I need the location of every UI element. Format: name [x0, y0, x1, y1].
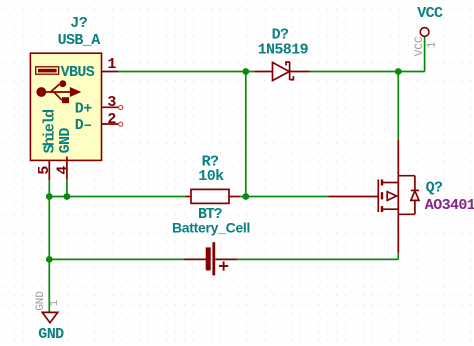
pin 1 VBUS	[61, 56, 119, 81]
transistor Q? AO3401	[328, 140, 419, 253]
label 1N5819	[258, 42, 309, 59]
svg-text:1: 1	[107, 56, 116, 73]
svg-text:10k: 10k	[198, 168, 224, 185]
wire to resistor	[49, 196, 185, 198]
svg-text:VCC: VCC	[417, 5, 443, 22]
pin 2 D-	[75, 111, 123, 134]
svg-text:VBUS: VBUS	[61, 64, 95, 81]
svg-text:Shield: Shield	[41, 110, 58, 154]
wire R branch vertical	[245, 72, 247, 197]
svg-text:Battery_Cell: Battery_Cell	[172, 219, 250, 235]
label Battery_Cell	[172, 219, 250, 235]
svg-text:USB_A: USB_A	[58, 32, 101, 49]
label R?	[202, 154, 219, 171]
label 10k	[198, 168, 224, 185]
pin 5 Shield	[36, 110, 58, 180]
junction pin4 wire	[64, 193, 71, 200]
svg-text:4: 4	[54, 166, 71, 175]
svg-text:D–: D–	[75, 117, 92, 134]
resistor R? 10k	[185, 189, 240, 203]
label AO3401	[425, 197, 474, 214]
svg-text:1: 1	[49, 299, 61, 306]
wire pin1 to diode	[119, 71, 255, 73]
junction at top of R branch	[242, 68, 249, 75]
svg-text:GND: GND	[57, 128, 74, 154]
svg-text:1: 1	[427, 41, 439, 48]
diode D? 1N5819	[255, 62, 310, 81]
battery BT?	[183, 242, 237, 275]
svg-text:1N5819: 1N5819	[258, 42, 309, 59]
value label USB_A	[58, 32, 101, 49]
svg-text:GND: GND	[38, 326, 64, 343]
pin 3 D+	[75, 94, 123, 118]
reference label J?	[70, 15, 87, 32]
VBUS bar icon	[36, 67, 59, 74]
wire battery to Q drain	[237, 258, 398, 260]
svg-text:J?: J?	[70, 15, 87, 32]
label BT?	[198, 206, 223, 223]
svg-text:3: 3	[107, 94, 116, 111]
wire VCC branch down to Q source	[397, 72, 399, 141]
junction at top of Q branch	[395, 68, 402, 75]
svg-text:Q?: Q?	[426, 180, 443, 197]
svg-text:2: 2	[107, 111, 116, 128]
connector J? USB_A body	[30, 53, 101, 160]
label D?	[272, 26, 289, 43]
svg-text:D+: D+	[75, 100, 92, 117]
svg-text:5: 5	[36, 166, 53, 175]
svg-text:AO3401A: AO3401A	[425, 197, 474, 214]
USB trident icon	[36, 80, 81, 103]
label Q?	[426, 180, 443, 197]
junction right of resistor	[242, 193, 249, 200]
wire resistor to gate	[240, 196, 329, 198]
svg-text:VCC: VCC	[414, 36, 426, 56]
junction battery wire left	[46, 256, 53, 263]
wire Q drain down	[397, 253, 399, 259]
wire pins 5/4 down	[49, 179, 67, 311]
wire to battery	[49, 258, 183, 260]
svg-text:GND: GND	[35, 291, 47, 311]
VCC power symbol	[414, 5, 443, 71]
GND symbol	[35, 291, 64, 344]
pin 4 GND	[54, 128, 74, 180]
junction pin5 wire	[46, 193, 53, 200]
wire diode to VCC corner	[310, 71, 425, 73]
